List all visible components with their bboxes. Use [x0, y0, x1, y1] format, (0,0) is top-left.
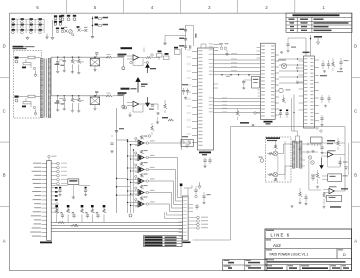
- crystal-like cell A: [158, 51, 162, 53]
- polarizing cross 3: [85, 29, 88, 32]
- net name table: [144, 236, 183, 247]
- U2 right resistor: [282, 98, 285, 103]
- svg-text:Ax2: Ax2: [273, 243, 281, 248]
- MCU left label smudges: [182, 84, 188, 85]
- lower secondary rail wire: [51, 95, 108, 97]
- mid res col: [316, 173, 319, 178]
- transformer secondary vertical link: [50, 57, 52, 96]
- opamp A6 pullup: [144, 203, 146, 205]
- IC U3 right inner labels: [310, 57, 313, 60]
- MCU U1 left inner labels: [198, 49, 202, 52]
- reg lower chain res: [164, 104, 167, 109]
- connector J3 pins left: [179, 197, 183, 199]
- U3 crystal: [296, 136, 300, 143]
- transistor Q2: [273, 172, 278, 177]
- IC U2 right pins: [275, 54, 279, 56]
- B+ 16V label: [195, 34, 196, 38]
- filter columns: [55, 205, 58, 207]
- opamp bus bottom circle: [129, 214, 132, 217]
- MCU label: [199, 152, 211, 154]
- top-left grid arrow: [52, 20, 54, 36]
- U3 below circles: [316, 127, 318, 129]
- lower right caps: [305, 194, 307, 197]
- comparator U7: [329, 188, 334, 193]
- upper rail cap C with + label: [57, 57, 59, 62]
- opamp fan bends: [149, 157, 178, 159]
- svg-text:D: D: [343, 253, 346, 257]
- opamp A2: [138, 155, 144, 161]
- svg-text:D: D: [354, 44, 357, 49]
- U3 right low cap: [321, 115, 323, 118]
- transformer T2 core: [295, 141, 297, 168]
- upper series resistor: [107, 53, 111, 56]
- upper output circle: [113, 56, 123, 58]
- U7 out label: [341, 188, 348, 189]
- B+ top loop wire: [186, 24, 194, 26]
- lower output label: [118, 92, 127, 94]
- B+ cap C41: [184, 39, 187, 40]
- wire vertical x314 down: [314, 146, 316, 215]
- IC U3 body: [304, 56, 315, 128]
- opamp A1 pullup: [144, 142, 146, 144]
- U3 right mid caps: [321, 95, 323, 98]
- T2 diode circles: [308, 156, 312, 160]
- MCU below cap2: [209, 157, 211, 160]
- U3 sub box right wire: [322, 142, 345, 144]
- reg opamp lower: [133, 101, 139, 107]
- J3 label below: [183, 242, 191, 244]
- MCU U1 right pins mid: [214, 83, 219, 85]
- filter cap pairs: [60, 212, 62, 213]
- reg lower chain gnd: [156, 112, 159, 115]
- lower right res: [299, 192, 302, 197]
- MCU below caps: [204, 157, 206, 160]
- title block bottom row: [286, 265, 288, 271]
- upper rail resistor 2: [80, 60, 84, 63]
- large up arrow +5REG: [136, 78, 140, 93]
- polarizing cross 2: [78, 29, 81, 32]
- mains connector lower: [15, 96, 19, 98]
- crystal-like cell B: [165, 53, 169, 55]
- IC U2 right inner labels: [271, 45, 274, 48]
- SMPS label: [266, 137, 280, 139]
- B+ left branch wire: [165, 34, 186, 36]
- wire vertical x294 down: [293, 95, 295, 132]
- lower rail cap C with + label: [57, 96, 59, 101]
- IC U3 right pins: [315, 59, 320, 61]
- reg lower chain parts: [145, 103, 158, 105]
- U6 right parts: [339, 160, 341, 162]
- top-left grid ground 1: [26, 37, 29, 40]
- U3 sub box below: [311, 137, 323, 143]
- connector J3 top components: [180, 184, 182, 198]
- mains connector upper: [15, 57, 19, 59]
- MCU U1 left pins: [192, 51, 198, 53]
- wire vertical x293 pair: [291, 98, 293, 131]
- lower rail resistor 2: [80, 99, 84, 102]
- wire vertical x345 down: [344, 127, 346, 191]
- relay rail ground: [92, 33, 94, 36]
- transistor Q1: [273, 151, 278, 156]
- wire vertical x348 down: [348, 143, 350, 175]
- IC U3 top entries: [305, 38, 307, 56]
- reg upper out parts: [146, 57, 152, 59]
- bus small circle: [75, 224, 77, 226]
- transformer T1 core: [44, 59, 46, 118]
- connector J2 right stubs mid: [51, 187, 55, 189]
- opamp A4 pullup: [144, 180, 146, 182]
- fuse F1: [28, 56, 35, 59]
- U2 left edge res: [236, 111, 239, 116]
- reg section label 1: [121, 47, 133, 49]
- MCU top right circles: [220, 47, 223, 50]
- opamp A3: [138, 167, 144, 173]
- lower right gnd far: [290, 205, 293, 208]
- U2 left bottom label: [240, 122, 249, 124]
- U7 below labels: [330, 206, 341, 208]
- U2 left lower circle: [254, 112, 256, 114]
- lower rail resistor: [74, 98, 78, 101]
- IC U2 left pins: [257, 47, 261, 49]
- connector J2 body: [47, 161, 52, 241]
- fan extra pins: [166, 212, 168, 215]
- U2 sub box gnd: [242, 87, 245, 89]
- MOV upper: [23, 63, 31, 65]
- transformer T2 secondary: [300, 141, 302, 168]
- frame row ticks right: [352, 77, 360, 79]
- mains lower sub parts: [22, 106, 26, 108]
- transformer T1 secondary winding: [48, 59, 51, 118]
- top mid cap pair: [287, 38, 289, 44]
- B+ rail cluster: [185, 25, 187, 50]
- J3 top flag: [198, 182, 201, 189]
- frame column ticks: [66, 0, 68, 13]
- U2 right osc circle: [281, 63, 286, 68]
- reg opamp upper feedback: [133, 59, 143, 66]
- circle-slash symbol: [69, 30, 73, 34]
- wire long horizontal y127: [231, 126, 346, 128]
- VR1 wiring: [51, 185, 68, 187]
- title block drawing title: [266, 249, 272, 250]
- upper rail resistor: [74, 59, 78, 62]
- opamp A4: [138, 178, 144, 184]
- svg-text:C: C: [3, 109, 6, 114]
- reg opamp upper: [133, 55, 139, 61]
- upper-left mcu cell: [175, 50, 181, 55]
- U2 sub box cap: [243, 80, 245, 82]
- MCU U1 body: [198, 48, 214, 150]
- opamp A2 pullup: [144, 157, 146, 159]
- lower rail cap 2: [63, 96, 65, 99]
- bus wires U2 to U3: [279, 58, 304, 60]
- opamp A1: [138, 140, 144, 146]
- left cap col: [312, 175, 314, 177]
- U2 sub box top dot: [248, 74, 249, 75]
- downstream cap cell: [115, 131, 118, 132]
- IC U3 left stubs: [299, 60, 304, 62]
- out labels right: [327, 140, 335, 141]
- out res right: [337, 141, 340, 146]
- MCU U1 right pins upper: [214, 43, 219, 45]
- opamp bus feed rungs: [117, 177, 128, 179]
- Q2 bias resistor: [274, 178, 277, 181]
- opamp chain bus verticals: [127, 140, 129, 213]
- test point pairs right of grid: [54, 17, 57, 20]
- relay driver cell 2: [95, 24, 98, 26]
- test point cluster second group: [61, 15, 64, 17]
- MCU left lower circles: [182, 141, 184, 143]
- upper bridge ground: [94, 66, 96, 69]
- upper bridge rectifier: [90, 58, 100, 66]
- title block rows: [265, 238, 352, 240]
- reg section label 2: [121, 88, 130, 90]
- fuse F2: [28, 95, 35, 98]
- title block company cell: [266, 230, 274, 231]
- U3 below grounds: [298, 148, 301, 151]
- down arrow flag right: [320, 158, 323, 169]
- bus resistor 2: [71, 224, 78, 226]
- lower bridge ground: [94, 105, 96, 108]
- title block title cell: [266, 239, 271, 240]
- upper secondary rail wire: [51, 56, 108, 58]
- out cap 1: [321, 144, 323, 147]
- connector J2 pins: [42, 163, 47, 165]
- transformer T2 primary: [293, 141, 295, 168]
- T2 out wires: [311, 143, 322, 145]
- opamp bus top dots: [130, 144, 131, 145]
- mains dashed box: [14, 51, 42, 119]
- upper mid dot rail: [143, 48, 145, 53]
- wire horizontal y131 to right: [292, 130, 298, 132]
- top-left test point grid: [12, 18, 15, 20]
- cross labels: [64, 27, 68, 28]
- IC U2 body: [260, 43, 275, 119]
- U3 far right cap: [340, 58, 342, 62]
- MOV lower: [23, 102, 31, 104]
- opamp chain supply rail: [117, 139, 128, 141]
- opto box U8: [328, 174, 342, 182]
- VR1 ground: [72, 185, 74, 197]
- upper output label: [118, 54, 127, 56]
- reg mid connector stub: [146, 61, 148, 63]
- B+ cap C40: [184, 30, 187, 31]
- opto inputs: [322, 175, 328, 177]
- frame row ticks left: [0, 77, 10, 79]
- svg-text:PA05 POWER LOGIC V1.1: PA05 POWER LOGIC V1.1: [270, 253, 309, 257]
- upper bridge cap above: [95, 53, 98, 54]
- polarizing cross 1: [65, 30, 68, 33]
- bottom bus lines: [51, 221, 182, 223]
- SMPS inner vertical: [277, 156, 279, 172]
- U2 right low caps: [280, 110, 282, 112]
- SMPS dashed box: [266, 137, 292, 182]
- svg-text:LINE 6: LINE 6: [271, 232, 291, 237]
- upper mid cell 1: [151, 54, 153, 56]
- net flag box right of opamp 1: [181, 140, 194, 147]
- opamp A5: [138, 190, 144, 196]
- opamp A5 pullup: [144, 192, 146, 194]
- opamp A3 pullup: [144, 169, 146, 171]
- mains upper arrow: [34, 71, 37, 78]
- wire long vertical x230: [230, 127, 232, 240]
- test point row with crosses: [56, 28, 59, 30]
- SMPS wires to T2: [278, 144, 293, 154]
- PS flag top: [316, 38, 319, 45]
- big arrow net flag down: [146, 97, 150, 106]
- SMPS mid circle: [260, 159, 264, 163]
- U3 right res: [332, 62, 335, 67]
- lower output circle: [113, 95, 123, 97]
- title block rev col: [336, 249, 338, 259]
- U7 box below: [327, 195, 342, 201]
- relay driver cell 1: [92, 16, 94, 33]
- big arrow net flag up: [146, 64, 150, 73]
- MCU top entry wires: [185, 50, 187, 52]
- U3 label: [303, 52, 310, 54]
- reg lower right parts: [162, 117, 168, 118]
- transformer pins left: [39, 57, 41, 59]
- upper rail cap 2: [63, 57, 65, 60]
- top mid gnd 2: [280, 51, 283, 54]
- downstream cap cell 2: [110, 143, 113, 144]
- title block frame: [265, 229, 352, 271]
- bus wires MCU to U2: [218, 54, 260, 56]
- title block filename row: [266, 259, 274, 260]
- T2 right vertical: [308, 160, 310, 190]
- MCU left caps: [183, 88, 185, 91]
- revision table: [286, 13, 352, 32]
- U3 right caps: [322, 60, 324, 64]
- connector J2 bottom label: [40, 242, 52, 244]
- regulator VR1 body: [68, 179, 79, 185]
- dashed box right vertical: [284, 141, 286, 180]
- approval block: [223, 259, 267, 270]
- lower mid res2: [151, 126, 154, 131]
- MCU left rail: [181, 48, 183, 150]
- bus wire 6 with dots: [218, 74, 260, 76]
- connector J3 body: [183, 196, 189, 240]
- MCU U1 right pins lower: [214, 97, 261, 99]
- reg lower feedback: [133, 105, 143, 112]
- J3 bottom wire right: [193, 239, 231, 241]
- svg-text:B: B: [354, 173, 357, 178]
- downstream ground: [111, 135, 113, 137]
- U3 far right label2: [337, 71, 343, 72]
- U2 left lower gnd: [252, 124, 255, 126]
- connector J3 right stubs: [188, 204, 193, 206]
- T2 pins: [302, 143, 305, 145]
- opamp output wire A1: [149, 142, 182, 144]
- transformer T1 primary winding: [41, 59, 44, 118]
- J3 right cap: [196, 204, 198, 206]
- svg-text:A: A: [3, 239, 6, 244]
- top-left grid ground 2: [46, 34, 48, 37]
- IC U3 left pin marks: [304, 57, 307, 60]
- rectifier output rail down: [116, 108, 118, 213]
- mains lower arrow: [34, 110, 37, 116]
- svg-text:B: B: [3, 173, 6, 178]
- opamp A6: [138, 201, 144, 207]
- J2 top part: [48, 155, 50, 157]
- T2 out diodes: [305, 143, 311, 146]
- svg-text:D: D: [3, 44, 6, 49]
- IC U2 left inner labels: [261, 45, 265, 48]
- J3 top cap: [195, 186, 197, 190]
- Q1 bias resistor: [274, 145, 277, 149]
- B+ bottom cap pair: [190, 45, 191, 48]
- connector J2 mid circles: [51, 203, 55, 205]
- B+ left branch arrow: [164, 42, 167, 45]
- U2 right circle 2: [279, 88, 283, 92]
- VR1 input cap: [59, 187, 61, 189]
- top mid cap label: [291, 47, 296, 48]
- B+ bottom cap: [184, 46, 187, 47]
- svg-text:A: A: [354, 239, 357, 244]
- svg-text:C: C: [354, 109, 357, 114]
- lower bridge cap above: [95, 91, 98, 92]
- U2 left sub box: [252, 77, 260, 89]
- mains section label: [13, 46, 24, 48]
- U6 feedback loop: [328, 157, 341, 167]
- comparator U6: [328, 152, 333, 157]
- U3 right cell labels: [320, 75, 327, 76]
- J3 top cap right: [203, 192, 205, 196]
- mains upper sub parts: [22, 67, 26, 69]
- lower series resistor: [107, 92, 111, 95]
- VR1 output cap: [85, 187, 87, 189]
- lower bridge rectifier: [90, 97, 100, 105]
- bus resistor 1: [58, 221, 64, 223]
- connector J2 right stubs upper: [51, 163, 56, 165]
- reg lower ground: [129, 112, 131, 114]
- left res col 2: [323, 193, 326, 198]
- IC U2 label: [264, 121, 273, 123]
- J3 right circles: [188, 217, 196, 219]
